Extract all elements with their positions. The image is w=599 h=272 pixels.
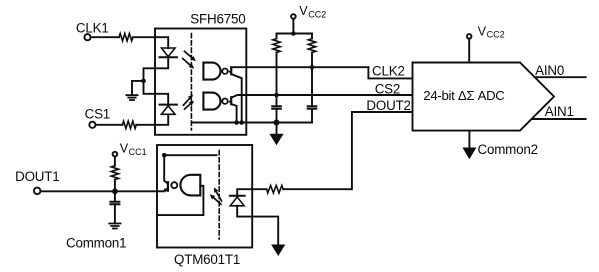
junction dot VCC2 rail [291, 31, 296, 36]
wire DOUT1 to capacitor C3 [114, 191, 116, 201]
svg-text:Common2: Common2 [478, 142, 538, 157]
resistor R3 (pull-up CS2) [273, 39, 280, 53]
transistor T3 base bar [167, 182, 169, 190]
transistor T3 collector wire [164, 155, 168, 183]
ground GND1 [126, 95, 137, 100]
wire T1 emitter to ground rail [231, 74, 242, 123]
isolation barrier (dashed) SFH6750 [190, 34, 192, 131]
wire LED1 cathode to left pin [155, 57, 168, 68]
junction dot ground rail to common [274, 120, 280, 126]
wire resistor to LED1 anode [133, 37, 168, 48]
terminal DOUT1 [34, 188, 41, 195]
wire CS2 to capacitor C1 [276, 95, 278, 106]
bubble U2 [171, 182, 177, 188]
NAND gate U1A (CLK) [203, 63, 220, 80]
resistor R1 (CLK1 series) [119, 34, 133, 41]
wire LED3 anode to common [237, 206, 278, 245]
svg-text:AIN0: AIN0 [535, 63, 564, 78]
optocoupler box SFH6750 [155, 29, 246, 135]
svg-text:AIN1: AIN1 [545, 104, 574, 119]
resistor R6 (DOUT1 pull-up) [111, 166, 118, 180]
terminal CS1 [89, 122, 95, 128]
common symbol (filled triangle) [269, 134, 283, 146]
svg-text:CC2: CC2 [308, 9, 326, 19]
wire LED2 cathode to left pin [155, 94, 168, 105]
light arrows channel 2 [183, 96, 191, 105]
common symbol QTM (filled triangle) [271, 245, 285, 257]
capacitor C3 [110, 202, 119, 205]
isolation barrier (dashed) QTM [218, 151, 220, 240]
wire C2 to ground rail [311, 109, 313, 123]
wire AIN1 [532, 118, 585, 120]
light arrows QTM [215, 189, 222, 201]
junction dot T1 emitter [239, 120, 244, 125]
svg-text:V: V [299, 4, 308, 18]
wire resistor to LED2 anode [136, 114, 168, 125]
svg-text:CS1: CS1 [85, 107, 110, 122]
LED D2 (CS channel, anode bottom) [161, 106, 175, 115]
svg-text:CC2: CC2 [487, 30, 505, 40]
terminal CLK1 [84, 34, 90, 40]
svg-text:V: V [120, 142, 129, 156]
wire CS2 from T2 collector [231, 95, 412, 98]
wire VCC2 to rail [292, 19, 294, 34]
transistor T2 emitter arrowhead [228, 100, 231, 104]
resistor R2 (CS1 series) [122, 121, 136, 128]
svg-text:V: V [478, 25, 487, 39]
NAND gate U1B (CS) [203, 93, 220, 110]
svg-text:CC1: CC1 [129, 147, 147, 157]
wire R6 to DOUT1 line [114, 180, 116, 192]
wire AIN0 [535, 76, 586, 78]
LED D3 (cathode top) [230, 195, 245, 197]
transistor T1 emitter arrowhead [228, 70, 231, 74]
capacitor C1 [272, 106, 281, 109]
wire LED pins to ground (outside box) [144, 68, 156, 94]
wire R3 to CS2 [276, 53, 278, 96]
wire DOUT2 from ADC [283, 112, 412, 189]
wire CLK1 to resistor [91, 36, 119, 38]
wire VCC2 to ADC [468, 39, 470, 63]
wire R5 to LED3 cathode [237, 189, 266, 195]
common2 stem at ADC [468, 131, 470, 148]
svg-text:DOUT2: DOUT2 [366, 98, 410, 113]
wire R4 to CLK2 [311, 53, 313, 68]
supply VCC2 (pull-up rail) [291, 14, 296, 19]
wire CS1 to resistor [96, 124, 123, 126]
wire DOUT1 [41, 190, 164, 192]
LED D1 (CLK channel, anode top) [161, 48, 175, 57]
supply VCC2 at ADC [467, 34, 472, 39]
bubble U1A [222, 69, 227, 74]
light arrows channel 1 [184, 51, 194, 59]
svg-text:CLK1: CLK1 [76, 20, 109, 35]
transistor T3 emitter (to DOUT1) [164, 188, 168, 191]
resistor R5 (DOUT2 series) [267, 185, 284, 193]
svg-text:QTM601T1: QTM601T1 [174, 252, 240, 267]
wire C3 to ground [114, 204, 116, 223]
junction dot ground tap [141, 79, 146, 84]
wire U2 output to box edge [157, 186, 203, 215]
junction dot photodiode node [162, 153, 167, 158]
NAND gate U2 (faces left) [180, 175, 200, 196]
junction dot T2 emitter [234, 120, 239, 125]
svg-text:DOUT1: DOUT1 [15, 169, 59, 184]
wire CLK2 to capacitor C2 [311, 67, 313, 106]
junction dot R3/CS2 [274, 93, 279, 98]
optocoupler box QTM601T1 [157, 145, 252, 248]
wire photodiode stub [164, 154, 216, 156]
capacitor C2 [308, 106, 317, 109]
svg-text:CS2: CS2 [375, 81, 400, 96]
ground GND2 [109, 224, 120, 229]
wire CLK2 step into ADC [368, 67, 412, 78]
resistor R4 (pull-up CLK2) [308, 39, 315, 53]
common2 symbol (filled triangle) [462, 148, 476, 160]
transistor T2 base bar [230, 97, 232, 104]
ADC (24-bit delta-sigma) [413, 63, 555, 131]
wire CLK2 from T1 collector [231, 66, 368, 68]
svg-text:CLK2: CLK2 [372, 63, 405, 78]
bubble U1B [222, 99, 227, 104]
junction dot R4/CLK2 [310, 65, 315, 70]
common symbol stem [276, 123, 278, 135]
rail wire [277, 34, 313, 39]
svg-text:24-bit ΔΣ ADC: 24-bit ΔΣ ADC [423, 88, 505, 103]
wire C1 to ground rail [276, 109, 278, 123]
transistor T1 base bar [230, 67, 232, 74]
transistor T3 emitter arrowhead [164, 188, 169, 193]
supply VCC1 [113, 152, 118, 157]
wire T2 emitter to ground rail [231, 104, 236, 123]
svg-text:Common1: Common1 [66, 236, 126, 251]
svg-text:SFH6750: SFH6750 [190, 12, 245, 27]
wire VCC1 to resistor [114, 156, 116, 165]
junction dot R6/DOUT1 [112, 188, 118, 194]
wire to ground symbol [132, 81, 144, 95]
ground rail (detector side) [191, 122, 312, 124]
